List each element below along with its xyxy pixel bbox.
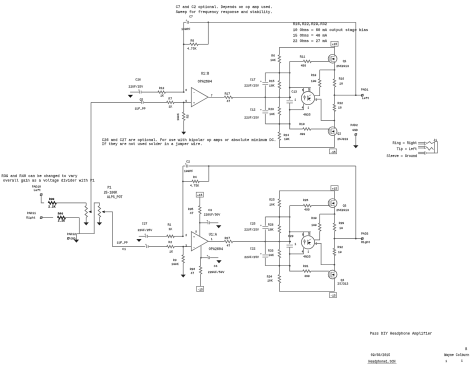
- svg-text:R16: R16: [339, 78, 345, 81]
- svg-text:100: 100: [311, 224, 317, 227]
- svg-text:Wayne Colburn: Wayne Colburn: [444, 353, 469, 357]
- resistor R6: [270, 54, 280, 64]
- svg-text:10K: 10K: [269, 204, 275, 207]
- resistor R19: [290, 123, 329, 136]
- wire gate bias vertical bottom: [289, 206, 291, 245]
- power -15 opamp: [197, 286, 204, 291]
- resistor R34: [267, 275, 281, 283]
- label jack wiring: [387, 141, 417, 159]
- svg-text:R19: R19: [299, 123, 305, 126]
- capacitor C26: [129, 78, 159, 93]
- pad PAD3 Right: [361, 233, 370, 245]
- svg-text:2.2K: 2.2K: [48, 205, 55, 208]
- opto-coupler U2 4N35: [301, 92, 314, 117]
- wire opto top pins bottom: [290, 232, 311, 237]
- svg-text:R8: R8: [191, 40, 195, 43]
- svg-text:R6: R6: [271, 54, 275, 58]
- wire feedback right vertical: [208, 22, 210, 45]
- resistor R26: [290, 199, 330, 211]
- ground at PAD2: [353, 145, 358, 148]
- svg-text:+15: +15: [197, 194, 203, 197]
- resistor R3: [171, 246, 184, 275]
- capacitor C27: [138, 223, 167, 238]
- svg-text:100PF: 100PF: [181, 28, 190, 31]
- resistor R27: [208, 237, 265, 248]
- resistor R11: [290, 55, 330, 67]
- svg-text:R29: R29: [339, 222, 345, 225]
- title author: [444, 353, 469, 357]
- svg-text:R33: R33: [268, 250, 274, 253]
- svg-text:22UF/25V: 22UF/25V: [244, 115, 259, 119]
- svg-text:R22: R22: [338, 102, 344, 105]
- svg-text:10K: 10K: [268, 254, 274, 257]
- svg-text:22UF/25V: 22UF/25V: [244, 83, 259, 87]
- svg-text:100K: 100K: [171, 263, 178, 266]
- svg-text:Q2: Q2: [337, 132, 341, 135]
- svg-text:22UF/25V: 22UF/25V: [244, 227, 259, 231]
- svg-text:10K: 10K: [269, 113, 275, 116]
- svg-text:4N35: 4N35: [303, 255, 310, 258]
- potentiometer P1 right section: [98, 206, 112, 223]
- pad PAD1 Left: [361, 88, 369, 100]
- capacitor C12: [244, 97, 268, 124]
- power +15 top: [331, 41, 338, 54]
- svg-text:R4: R4: [193, 176, 197, 179]
- svg-text:1: 1: [461, 359, 463, 362]
- wire Q2 drain to -15: [334, 136, 336, 148]
- svg-text:U1:A: U1:A: [209, 234, 217, 238]
- svg-text:C2: C2: [186, 161, 190, 164]
- svg-text:-15: -15: [330, 151, 336, 154]
- ground left pot: [84, 222, 89, 225]
- svg-text:R36: R36: [190, 268, 196, 271]
- svg-text:100K: 100K: [177, 113, 180, 120]
- svg-text:C26: C26: [135, 78, 141, 81]
- svg-text:10K: 10K: [267, 279, 273, 282]
- resistor R28: [268, 223, 281, 233]
- svg-text:22 Ohms = 27 mA: 22 Ohms = 27 mA: [293, 39, 328, 44]
- opto-coupler U3 4N35: [301, 236, 314, 259]
- note: C26 C27 optional: [102, 138, 276, 147]
- svg-text:1: 1: [445, 360, 447, 363]
- ground below R3: [181, 275, 186, 278]
- wire pin4 stub: [200, 246, 202, 259]
- svg-text:Q1: Q1: [343, 60, 347, 63]
- svg-text:C23: C23: [288, 235, 294, 238]
- ground below R5: [181, 132, 186, 135]
- svg-text:R27: R27: [225, 237, 231, 240]
- svg-text:J1: J1: [434, 139, 438, 142]
- svg-text:R25: R25: [269, 199, 275, 202]
- svg-text:R23: R23: [268, 108, 274, 111]
- svg-text:2.2K: 2.2K: [58, 220, 65, 223]
- title rev B: [465, 347, 467, 351]
- resistor R12: [158, 87, 184, 98]
- svg-text:R30: R30: [311, 217, 317, 220]
- wire +15 rail bottom channel: [279, 191, 334, 199]
- svg-text:R26: R26: [303, 199, 309, 202]
- svg-text:499: 499: [301, 65, 307, 68]
- wire output row: [265, 97, 292, 99]
- capacitor C7: [181, 15, 208, 31]
- svg-text:1UF_PP: 1UF_PP: [117, 241, 128, 244]
- resistor R23: [268, 107, 280, 116]
- capacitor C22: [244, 242, 268, 266]
- svg-text:-15: -15: [197, 288, 203, 291]
- svg-text:C3: C3: [208, 209, 212, 212]
- transistor Q4 2SJ313: [328, 265, 348, 286]
- potentiometer P1 left section: [85, 203, 92, 223]
- resistor R22: [333, 95, 343, 121]
- wire Q3 source junction: [320, 207, 336, 215]
- svg-text:R35: R35: [188, 208, 194, 211]
- svg-text:22UF/25V: 22UF/25V: [138, 228, 153, 232]
- svg-text:499: 499: [300, 133, 306, 136]
- resistor R17: [208, 93, 265, 104]
- pad PAD11 Right: [26, 212, 42, 219]
- svg-text:1K: 1K: [169, 228, 173, 231]
- svg-text:10K: 10K: [270, 59, 276, 62]
- ground after C3: [216, 225, 221, 228]
- svg-text:R28: R28: [268, 223, 274, 226]
- transistor Q2 2SJ313: [328, 121, 348, 142]
- svg-text:10: 10: [338, 107, 342, 110]
- op-amp U1:A: [185, 232, 223, 252]
- capacitor C5: [135, 98, 168, 110]
- resistor R33: [268, 249, 281, 257]
- svg-text:4N35: 4N35: [303, 113, 310, 116]
- svg-text:R15: R15: [269, 80, 275, 83]
- power -15 bottom channel: [329, 293, 336, 298]
- op-amp U1:B: [185, 72, 212, 107]
- svg-text:+15: +15: [332, 43, 338, 46]
- svg-text:OPA2604: OPA2604: [209, 248, 223, 252]
- svg-text:R17: R17: [225, 93, 231, 96]
- resistor R18: [311, 70, 321, 96]
- wire R28-R33: [278, 233, 280, 249]
- capacitor C13: [287, 91, 298, 129]
- svg-text:R5: R5: [186, 114, 189, 118]
- resistor R1: [167, 224, 184, 238]
- svg-text:OPA2604: OPA2604: [198, 81, 212, 85]
- svg-text:2SJ313: 2SJ313: [337, 138, 348, 141]
- label P1: [104, 186, 123, 200]
- svg-text:Headphone1.SCH: Headphone1.SCH: [368, 360, 395, 364]
- arrow junction bottom branch: [136, 239, 141, 242]
- pad PAD12 GND: [67, 233, 77, 240]
- svg-text:R1: R1: [168, 224, 172, 227]
- svg-text:C27: C27: [142, 223, 148, 226]
- svg-text:10 Ohms = 60 mA output stage b: 10 Ohms = 60 mA output stage bias: [293, 28, 368, 33]
- title filename: [368, 360, 397, 364]
- wire feedback to output bottom: [209, 166, 356, 239]
- svg-text:22UF/25V: 22UF/25V: [244, 255, 259, 259]
- resistor R4: [183, 176, 209, 187]
- svg-text:R18: R18: [311, 74, 317, 77]
- svg-text:Sleeve = Ground: Sleeve = Ground: [387, 154, 417, 159]
- wire node A: [265, 63, 290, 80]
- svg-text:2SK2013: 2SK2013: [336, 209, 349, 212]
- resistor R36: [190, 258, 202, 287]
- svg-text:1K: 1K: [169, 250, 173, 253]
- wire node B: [265, 115, 290, 132]
- wire gate bias vertical: [289, 61, 291, 100]
- wire output node bottom: [334, 238, 363, 240]
- svg-text:R31: R31: [303, 265, 309, 268]
- ground right pot: [97, 222, 102, 225]
- capacitor C4: [201, 255, 224, 274]
- svg-text:100: 100: [311, 80, 317, 83]
- connector J1 headphone jack: [418, 139, 437, 155]
- svg-text:overall gain as a voltage divi: overall gain as a voltage divider with P…: [3, 178, 95, 183]
- wire opto pin2 to output devices: [315, 98, 335, 120]
- note: output stage bias table: [293, 23, 368, 44]
- svg-text:25-100K: 25-100K: [104, 191, 118, 195]
- resistor R5: [177, 102, 190, 132]
- svg-text:2SJ313: 2SJ313: [337, 283, 348, 286]
- ground after C4: [216, 260, 221, 263]
- wire opto bottom pin bottom: [290, 248, 310, 254]
- svg-text:R39: R39: [49, 198, 55, 201]
- wire feedback left vertical: [183, 22, 185, 93]
- capacitor C25: [244, 217, 268, 242]
- capacitor C1: [117, 241, 167, 251]
- svg-text:Right: Right: [361, 240, 370, 244]
- title sheet numbers: [445, 359, 463, 362]
- resistor R16: [333, 70, 344, 95]
- resistor R40: [42, 213, 79, 223]
- pad PAD10 Left: [32, 186, 43, 196]
- wire fb left vertical bottom: [182, 166, 184, 237]
- svg-text:R7: R7: [168, 98, 172, 101]
- svg-text:10K: 10K: [284, 138, 290, 141]
- svg-text:ALPS_POT: ALPS_POT: [107, 195, 123, 199]
- svg-text:10: 10: [339, 227, 343, 230]
- resistor R15: [269, 80, 281, 89]
- power +15 opamp: [196, 192, 203, 206]
- svg-text:R12: R12: [159, 87, 165, 90]
- power +15 bottom channel: [331, 186, 338, 199]
- wire bottom rail bottom channel: [279, 283, 334, 291]
- svg-text:Right: Right: [26, 215, 35, 219]
- svg-text:-15: -15: [330, 295, 336, 298]
- svg-text:10K: 10K: [269, 84, 275, 87]
- svg-text:4.75K: 4.75K: [187, 48, 196, 51]
- svg-text:C12: C12: [250, 108, 256, 111]
- svg-text:2SK2013: 2SK2013: [336, 65, 349, 68]
- svg-text:47: 47: [227, 100, 231, 103]
- wire Q4 drain to -15: [334, 279, 336, 292]
- capacitor C17: [244, 73, 268, 98]
- svg-text:U1:B: U1:B: [201, 72, 209, 76]
- svg-text:15 Ohms = 40 mA: 15 Ohms = 40 mA: [293, 33, 328, 38]
- svg-text:Left: Left: [34, 188, 41, 192]
- pad PAD2 GND: [351, 124, 359, 145]
- resistor R7: [167, 98, 192, 109]
- ground at PAD12: [74, 234, 80, 243]
- wire R15-R23: [278, 89, 280, 107]
- resistor R24: [278, 132, 289, 141]
- svg-text:10: 10: [339, 83, 343, 86]
- svg-text:R3: R3: [173, 259, 177, 262]
- wire output row bottom: [265, 241, 292, 243]
- svg-text:PAD1: PAD1: [361, 88, 368, 91]
- svg-text:R16,R22,R29,R32: R16,R22,R29,R32: [293, 23, 327, 27]
- svg-text:+15: +15: [332, 188, 338, 191]
- svg-text:C5: C5: [140, 98, 144, 101]
- svg-text:C13: C13: [292, 91, 298, 94]
- svg-text:100PF: 100PF: [184, 170, 193, 173]
- svg-text:499: 499: [304, 209, 310, 212]
- svg-text:C7: C7: [189, 15, 193, 18]
- resistor R35: [188, 206, 201, 224]
- wire opto bottom pin: [290, 104, 310, 110]
- svg-text:22UF/25V: 22UF/25V: [129, 84, 144, 88]
- svg-text:47: 47: [227, 244, 231, 247]
- svg-text:Tip = Left: Tip = Left: [397, 147, 417, 152]
- svg-text:47: 47: [190, 212, 194, 215]
- resistor R39: [41, 196, 86, 209]
- svg-text:If they are not used solder in: If they are not used solder in a jumper …: [102, 142, 202, 147]
- svg-text:Pass DIY Headphone Amplifier: Pass DIY Headphone Amplifier: [370, 331, 432, 336]
- wire +15 rail top: [279, 48, 334, 55]
- resistor R8: [184, 40, 209, 51]
- svg-text:PAD3: PAD3: [361, 233, 368, 236]
- svg-text:C22: C22: [250, 247, 256, 250]
- svg-text:4.75K: 4.75K: [190, 184, 199, 187]
- svg-text:B: B: [465, 347, 467, 351]
- resistor R32: [333, 239, 343, 266]
- svg-text:C1: C1: [122, 248, 126, 251]
- svg-text:220UF/50V: 220UF/50V: [208, 270, 225, 274]
- svg-text:220UF/50V: 220UF/50V: [204, 213, 221, 217]
- svg-text:PAD12: PAD12: [67, 233, 76, 236]
- wire opto pin2 bottom: [315, 243, 335, 265]
- transistor Q1 2SK2013: [328, 54, 349, 68]
- svg-text:Ring = Right: Ring = Right: [393, 141, 417, 146]
- note: C7 and C2 optional: [176, 5, 273, 15]
- arrow junction top branch: [128, 95, 133, 98]
- svg-text:1UF_PP: 1UF_PP: [135, 108, 146, 111]
- wire opto top pins: [290, 88, 311, 93]
- wire bottom rail top channel: [279, 140, 334, 147]
- svg-text:R32: R32: [338, 246, 344, 249]
- resistor R30: [311, 214, 321, 240]
- svg-text:1K: 1K: [160, 95, 164, 98]
- svg-text:R2: R2: [168, 241, 172, 244]
- svg-text:499: 499: [304, 275, 310, 278]
- svg-text:R34: R34: [267, 276, 273, 279]
- wire node A bottom: [265, 207, 290, 225]
- svg-text:PAD2: PAD2: [351, 124, 358, 127]
- resistor R29: [333, 214, 344, 239]
- svg-text:47: 47: [191, 272, 195, 275]
- resistor R2: [167, 241, 192, 253]
- note: R39 R40 gain: [2, 174, 96, 183]
- power -15 top: [329, 149, 336, 154]
- wire feedback to output: [208, 22, 355, 95]
- resistor R31: [290, 265, 329, 278]
- capacitor C3: [200, 209, 221, 224]
- title date: [371, 353, 390, 357]
- svg-text:R40: R40: [58, 213, 64, 216]
- title Pass DIY Headphone Amplifier: [370, 331, 432, 336]
- svg-text:PAD11: PAD11: [27, 212, 36, 215]
- svg-text:C25: C25: [250, 222, 256, 225]
- svg-text:Q3: Q3: [343, 205, 347, 208]
- wire Q1 source to R18 R16: [320, 63, 336, 71]
- wire R40 to right pot: [79, 203, 99, 234]
- resistor R25: [269, 199, 280, 208]
- capacitor C23: [287, 235, 297, 271]
- svg-text:GND: GND: [352, 129, 358, 132]
- wire input from pot wiper: [91, 102, 141, 211]
- svg-text:1K: 1K: [169, 105, 173, 108]
- svg-text:R24: R24: [284, 134, 290, 137]
- capacitor C2: [183, 161, 209, 173]
- svg-text:10: 10: [338, 251, 342, 254]
- wire node B bottom: [265, 258, 290, 275]
- svg-text:C17: C17: [250, 78, 256, 81]
- svg-text:C7 and C2 optional. Depends on: C7 and C2 optional. Depends on op amp us…: [176, 5, 273, 10]
- svg-text:C4: C4: [214, 265, 218, 268]
- svg-text:09/03/2015: 09/03/2015: [371, 353, 390, 357]
- svg-text:R11: R11: [300, 55, 306, 58]
- wire wiper to C1: [113, 212, 146, 247]
- wire fb right vertical bottom: [208, 165, 210, 181]
- wire pin8 stub: [195, 223, 199, 237]
- wire output node left: [334, 94, 363, 96]
- svg-text:10K: 10K: [268, 228, 274, 231]
- transistor Q3 2SK2013: [328, 199, 349, 212]
- svg-text:Left: Left: [362, 96, 369, 100]
- svg-text:P1: P1: [108, 186, 112, 190]
